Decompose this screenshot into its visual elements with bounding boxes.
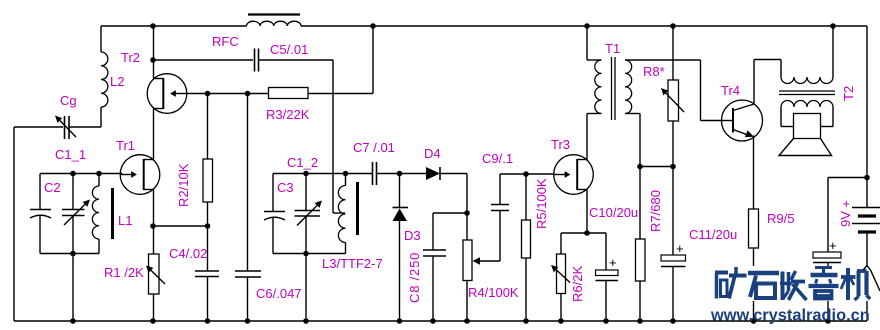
transistor Tr4 [722,100,763,141]
wire C3 branch [272,174,274,254]
label R6/2K [570,266,585,302]
battery 9V [852,208,880,233]
wire battery to ground [866,232,868,321]
svg-text:9V: 9V [838,211,853,227]
label C7 /.01 [353,140,395,155]
transistor Tr2 [147,74,187,114]
capacitor C6/.047 [235,271,261,277]
wire R5 branch [525,174,527,220]
node ground R6 [558,318,564,324]
wire to R4 [466,213,468,240]
wire C8 to ground [432,256,434,321]
svg-text:C5/.01: C5/.01 [270,42,308,57]
svg-text:C2: C2 [44,180,61,195]
label Tr4 [721,83,740,98]
label L2 [110,74,124,89]
label Tr3 [551,137,570,152]
wire C11 to ground [672,267,674,322]
svg-text:+: + [676,241,684,256]
svg-text:+: + [829,238,837,253]
wire C4 to ground [207,277,209,322]
resistor R8* (variable) [661,80,684,121]
wire R6 branch [560,233,562,254]
node T2 at rail [830,23,836,29]
node ground C11 [670,318,676,324]
transformer T2 primary winding [781,77,833,84]
wire R7 to ground [639,281,641,321]
label R3/22K [266,107,310,122]
core bar of RFC [248,13,300,15]
svg-text:R8*: R8* [643,64,665,79]
node R5 top [523,171,529,177]
svg-text:C8 /250: C8 /250 [407,252,422,303]
capacitor C2 [30,210,51,219]
label C2 [44,180,61,195]
node ground R5 [523,318,529,324]
wire R4 to ground [466,281,468,322]
svg-text:C1_1: C1_1 [55,147,86,162]
label C1_2 [287,155,318,170]
label RFC [212,34,239,49]
wire Cg to L2 [69,107,101,127]
node tank1-C trim [70,171,76,177]
label Tr2 [121,50,140,65]
node D3 top [397,171,403,177]
wire T1 left [587,26,602,60]
wire tank1 to ground [72,254,74,322]
node R3 rail [370,23,376,29]
wire Tr1 source down [153,190,155,227]
transistor Tr1 [120,155,160,195]
label T2 [841,86,856,101]
ferrite core bar of L1 [111,188,114,239]
wire source node to R2 node [153,225,208,227]
label D3 [404,228,421,243]
node ground C4 [205,318,211,324]
wire C10 branch [605,233,607,270]
svg-text:C4/.02: C4/.02 [169,246,207,261]
wire T1 secondary top to Tr4 base [625,60,722,121]
svg-text:Tr1: Tr1 [116,138,135,153]
node ground R1 [150,318,156,324]
wire R7 branch [639,167,641,240]
wire Tr4 collector to T2 [754,60,781,105]
potentiometer R4/100K [463,240,472,281]
wire R5 to ground [525,258,527,321]
label T1 [605,41,620,56]
wire C1_2 branch [305,174,307,254]
wiper of R4 [473,257,501,265]
label Tr1 [116,138,135,153]
watermark kuangshi shouyinji [714,266,871,301]
wire trimmer branch [72,174,74,254]
svg-text:L1: L1 [118,213,132,228]
wire Tr4 emitter to R9 [753,136,755,210]
svg-text:C7 /.01: C7 /.01 [353,140,395,155]
wire C6 to ground [247,277,249,321]
node ground D3 [397,318,403,324]
label C9/.1 [482,151,513,166]
svg-text:C3: C3 [277,180,294,195]
svg-text:R3/22K: R3/22K [266,107,310,122]
wire R6 to ground [560,294,562,322]
wire C2 branch top [39,174,41,210]
resistor R7/680 [636,239,646,281]
node ground C6 [245,318,251,324]
speaker [779,114,832,156]
node Tr1 source junction [150,223,156,229]
capacitor C3 [264,212,285,221]
wire C10 to ground [605,281,607,322]
svg-text:C6/.047: C6/.047 [256,286,302,301]
capacitor C5/.01 [255,49,259,72]
svg-text:www.crystalradio.cn: www.crystalradio.cn [710,307,870,325]
node tank1-L1 [96,171,102,177]
wire Tr1 drain to Tr2 source [153,109,155,160]
wire tank1 top [40,173,122,175]
wire Tr3 source down [586,190,588,234]
node R2 top [205,91,211,97]
label C8 /250 [407,252,422,303]
label R8* [643,64,665,79]
svg-text:+: + [609,255,617,270]
wire C7 to D4 [377,173,427,175]
svg-text:L2: L2 [110,74,124,89]
svg-text:L3/TTF2-7: L3/TTF2-7 [322,256,383,271]
wire R8 bottom [672,121,674,167]
node ground tank2 [303,318,309,324]
wire R2 to C4 [207,202,209,271]
svg-text:RFC: RFC [212,34,239,49]
svg-text:Tr4: Tr4 [721,83,740,98]
svg-text:+: + [843,196,851,211]
capacitor Cg/C1_1 (variable) [55,116,76,140]
svg-text:T1: T1 [605,41,620,56]
diode D4 [426,167,440,180]
svg-text:Tr3: Tr3 [551,137,570,152]
capacitor C8/250 [423,250,446,256]
label C5/.01 [270,42,308,57]
diode D3 [393,208,409,222]
wire Cg input [14,126,63,128]
label 9V + [838,196,853,227]
label L1 [118,213,132,228]
label R9/5 [767,211,794,226]
label C10/20u [589,205,638,220]
capacitor C10/20u (electrolytic) [596,255,619,281]
wire Tr2 drain to top rail [153,26,155,79]
capacitor C11/20u (electrolytic) [661,241,686,267]
label R5/100K [534,178,549,229]
capacitor C1_1 trimmer (variable) [62,200,90,226]
core of T1 [612,57,616,120]
resistor R1 /2K (variable) [146,254,165,294]
wire tank2 to ground [305,254,307,322]
node ground C8 [430,318,436,324]
wire C5 left [153,59,253,61]
wire tank2 bottom [273,253,346,255]
inductor L2 [101,52,108,107]
label L3/TTF2-7 [322,256,383,271]
label D4 [424,146,441,161]
label C3 [277,180,294,195]
capacitor filter (electrolytic) [813,238,841,263]
wire C6 branch [247,94,249,272]
node Tr3 source junction [584,230,590,236]
svg-text:R5/100K: R5/100K [534,178,549,229]
wire R8 top [672,26,674,80]
svg-text:R9/5: R9/5 [767,211,794,226]
wire L2 top to rail [100,26,102,52]
capacitor C1_2 (variable) [295,201,323,226]
node R8 at rail [670,23,676,29]
svg-text:R4/100K: R4/100K [468,285,519,300]
svg-text:T2: T2 [841,86,856,101]
wire bottom ground rail [14,320,867,322]
wire T1 primary bottom [587,113,602,115]
svg-text:C11/20u: C11/20u [689,227,737,242]
wire tank1 bottom [40,253,99,255]
wire to R1 [153,226,155,254]
svg-text:Tr2: Tr2 [121,50,140,65]
wire filter cap to ground [827,263,829,322]
transformer T1 secondary winding [625,60,632,114]
transformer T1 primary winding [595,60,602,114]
wire C5 right + feedback down to L3 tap [259,60,346,213]
wire filter cap branch [828,178,867,253]
resistor R3/22K [269,88,309,99]
wire source node horizontals [561,232,606,234]
capacitor C4/.02 [195,271,219,277]
inductor L1 [92,174,99,254]
transformer T2 secondary winding [781,101,833,127]
svg-text:R7/680: R7/680 [648,190,663,232]
label R4/100K [468,285,519,300]
inductor RFC [247,21,302,26]
node ground tank1 [70,318,76,324]
wire C2 branch bottom [39,216,41,254]
node detector out [464,210,470,216]
wire D4 out [440,174,467,214]
wire C9 branch [500,174,555,261]
svg-text:D3: D3 [404,228,421,243]
label R1 /2K [104,265,144,280]
svg-text:C10/20u: C10/20u [589,205,638,220]
core of T2 [779,91,835,95]
wire D3 branch [399,174,401,208]
node C1_2 top [303,171,309,177]
inductor L3 [338,174,345,254]
watermark www.crystalradio.cn [710,307,870,325]
svg-text:R2/10K: R2/10K [176,163,191,207]
svg-text:C9/.1: C9/.1 [482,151,513,166]
capacitor C7/.01 [373,162,377,185]
svg-text:C1_2: C1_2 [287,155,318,170]
wire Tr3 drain up to T1 [586,114,588,160]
label C4/.02 [169,246,207,261]
node ground R7 [637,318,643,324]
node tank1 bottom junction [70,251,76,257]
ferrite core bar of L3 [356,182,359,235]
wire R2 branch [207,94,209,160]
node ground R9 [751,318,757,324]
wire D3 to ground [399,221,401,321]
label Cg [60,93,77,108]
node L3 top [343,171,349,177]
node ground R4 [464,318,470,324]
wire R9 to ground [753,248,755,321]
resistor R5/100K [522,220,531,258]
wire R7-R8 link [640,166,673,168]
resistor R2/10K [203,159,213,202]
node ground filter cap [825,318,831,324]
svg-text:Cg: Cg [60,93,77,108]
node ground C10 [603,318,609,324]
wire left edge (Cg to ground rail) [13,127,15,321]
node T1 left at rail [584,23,590,29]
wire top supply rail [101,25,867,27]
node R2 bottom junction [205,223,211,229]
resistor R6/2K (variable) [551,254,570,294]
transistor Tr3 [554,155,594,195]
node C6 top [245,91,251,97]
resistor R9/5 [749,209,759,248]
node C5 tap [150,57,156,63]
node battery tap [864,175,870,181]
svg-text:R1 /2K: R1 /2K [104,265,144,280]
wire to C8 [433,213,467,250]
node Tr2 drain at rail [150,23,156,29]
wire R3 to top rail [372,26,374,94]
wire C11 branch [672,167,674,256]
wire T1 secondary bottom [625,114,640,167]
node R8 bottom [670,164,676,170]
wire R1 to ground [153,294,155,321]
annotation diagonal at battery [864,266,880,292]
node tank2 bottom junction [303,251,309,257]
svg-text:R6/2K: R6/2K [570,266,585,302]
wire T2 primary right to rail [832,26,834,77]
label R2/10K [176,163,191,207]
label C6/.047 [256,286,302,301]
wire tank2 top [273,173,373,175]
wire Tr2 gate line [185,93,373,95]
node R7 top [637,164,643,170]
label C11/20u [689,227,737,242]
label R7/680 [648,190,663,232]
svg-text:D4: D4 [424,146,441,161]
capacitor C9/.1 [491,205,509,211]
label C1_1 [55,147,86,162]
wire right edge (battery branch down from top rail) [866,26,868,208]
